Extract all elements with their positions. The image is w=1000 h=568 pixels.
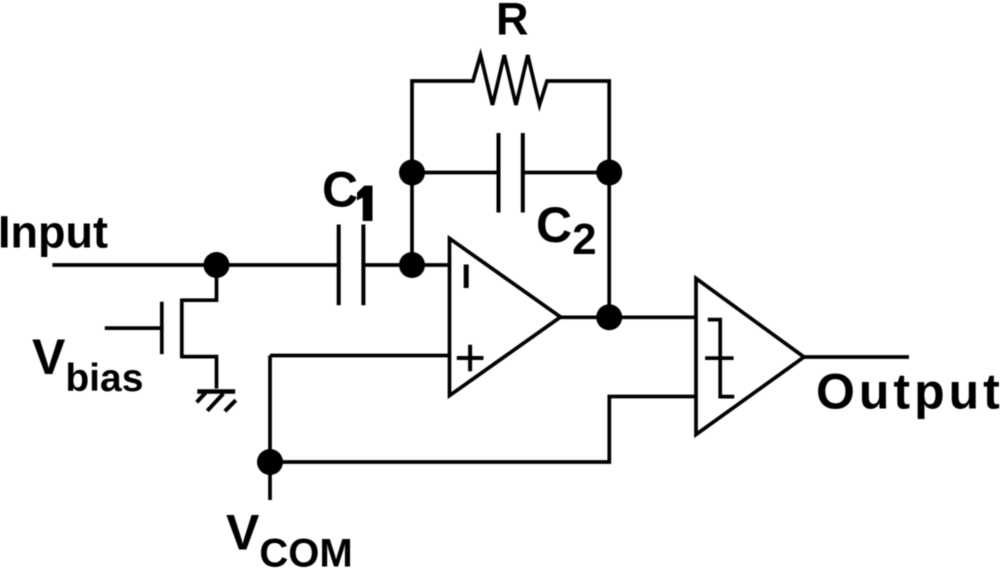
wire output [804, 355, 909, 359]
wire Vcom to op-amp plus input [270, 354, 450, 358]
node feedback top-right [596, 160, 622, 186]
node op-amp output [596, 304, 622, 330]
wire C1 to op-amp [365, 263, 449, 267]
wire C2 left [412, 171, 497, 175]
node after C1 [399, 252, 425, 278]
wire Vcom vertical [268, 356, 272, 501]
svg-text:R: R [496, 0, 529, 45]
label C1 subscript 1 [357, 186, 373, 221]
svg-text:Vbias: Vbias [32, 329, 143, 400]
ground bar [197, 389, 235, 394]
node input junction [204, 252, 230, 278]
wire C2 right [525, 171, 610, 175]
wire Vcom to comparator lower input [270, 397, 696, 463]
wire op-amp output [561, 315, 697, 319]
node feedback top-left [399, 160, 425, 186]
wire feedback left vertical [410, 173, 414, 266]
comparator U2 hysteresis symbol [705, 320, 734, 397]
wire transistor source to ground [182, 357, 217, 389]
ground hatch 1 [197, 393, 206, 402]
op-amp U1 [450, 238, 561, 395]
capacitor C1 left plate [337, 225, 341, 306]
comparator U2 [696, 278, 804, 434]
ground hatch 3 [225, 400, 236, 411]
svg-text:C: C [322, 162, 358, 218]
svg-text:Input: Input [0, 207, 108, 258]
capacitor C2 right plate [521, 133, 525, 213]
wire top loop with resistor R zigzag [412, 55, 609, 317]
wire node to transistor drain [182, 265, 217, 300]
transistor M1 channel [180, 299, 184, 359]
wire input horizontal [52, 263, 337, 267]
transistor M1 gate plate [160, 302, 164, 354]
svg-text:Output: Output [816, 364, 1000, 420]
op-amp U1 plus sign [457, 345, 484, 371]
op-amp U1 inverting input bar [464, 265, 469, 289]
node Vcom junction [257, 449, 283, 475]
wire gate lead [105, 326, 162, 330]
capacitor C2 left plate [497, 133, 501, 213]
svg-text:VCOM: VCOM [226, 504, 353, 568]
ground hatch 2 [207, 394, 223, 411]
capacitor C1 right plate [361, 225, 365, 306]
svg-text:C2: C2 [536, 197, 597, 264]
